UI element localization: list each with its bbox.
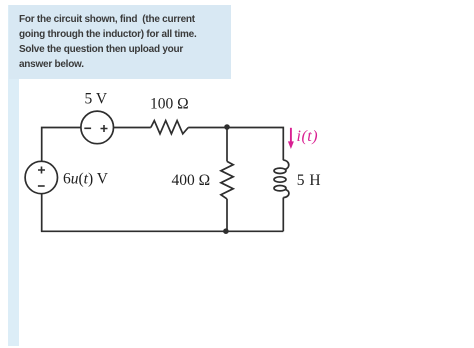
plus sign of V2 <box>38 167 45 174</box>
wire top right segment <box>188 128 283 161</box>
minus sign of V1 <box>84 127 91 129</box>
svg-text:5 H: 5 H <box>297 172 321 189</box>
current arrow i(t) <box>290 128 292 142</box>
voltage source V2 circle (6u(t) V) <box>25 161 57 193</box>
wire right lower segment <box>282 198 284 232</box>
junction dot top <box>224 124 230 130</box>
svg-text:6u(t) V: 6u(t) V <box>63 170 109 187</box>
inductor L1 top hook <box>283 160 288 170</box>
resistor R2 400 ohm <box>221 161 233 199</box>
wire left lower segment <box>41 194 43 232</box>
wire top-left segment <box>42 128 81 162</box>
inductor L1 bottom hook <box>283 189 289 197</box>
inductor L1 loop 1 <box>274 168 286 173</box>
minus sign of V2 <box>38 185 45 187</box>
svg-text:5 V: 5 V <box>85 90 108 107</box>
inductor L1 loop 2 <box>274 177 286 182</box>
svg-text:400 Ω: 400 Ω <box>172 172 211 189</box>
left blue strip <box>8 5 19 346</box>
resistor R1 100 ohm <box>151 121 189 134</box>
svg-text:100 Ω: 100 Ω <box>150 96 189 113</box>
inductor L1 loop 3 <box>274 186 286 191</box>
junction dot bottom <box>223 228 229 234</box>
question text box <box>9 5 231 79</box>
current arrow head <box>288 141 294 149</box>
wire 400-ohm branch lower <box>226 199 228 231</box>
plus sign of V1 <box>101 125 108 132</box>
svg-text:i(t): i(t) <box>297 128 319 145</box>
wire top middle segment <box>114 127 151 129</box>
wire bottom segment <box>41 230 283 232</box>
voltage source V1 circle (5 V) <box>81 111 114 144</box>
wire 400-ohm branch upper <box>226 128 228 162</box>
